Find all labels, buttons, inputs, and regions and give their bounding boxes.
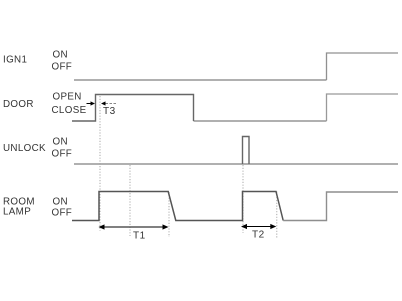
svg-text:UNLOCK: UNLOCK: [3, 143, 46, 154]
svg-text:OFF: OFF: [52, 62, 73, 73]
svg-text:LAMP: LAMP: [3, 207, 31, 218]
svg-text:T1: T1: [133, 231, 146, 242]
svg-text:ON: ON: [53, 197, 68, 208]
svg-text:CLOSE: CLOSE: [52, 105, 87, 116]
svg-text:IGN1: IGN1: [3, 55, 27, 66]
svg-text:T2: T2: [252, 230, 265, 241]
svg-text:OFF: OFF: [52, 149, 73, 160]
svg-text:ON: ON: [53, 136, 68, 147]
svg-text:T3: T3: [103, 106, 116, 117]
svg-text:ON: ON: [53, 49, 68, 60]
svg-text:OPEN: OPEN: [53, 91, 82, 102]
svg-text:DOOR: DOOR: [3, 99, 34, 110]
svg-text:OFF: OFF: [52, 208, 73, 219]
